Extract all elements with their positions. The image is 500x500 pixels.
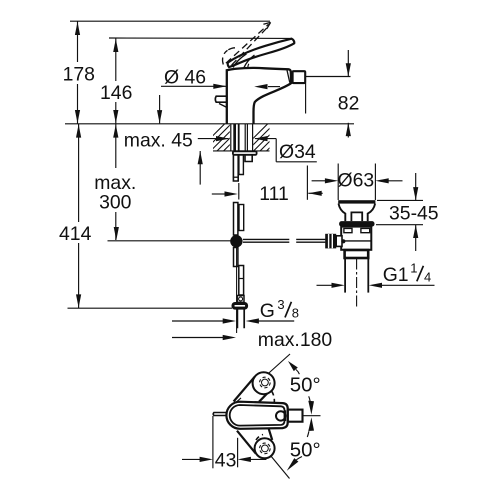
- tail pipe: [344, 258, 346, 293]
- supply pipe B: [239, 155, 244, 175]
- dim line 35-45: [415, 173, 417, 200]
- dim line max300: [115, 124, 117, 168]
- body inner: [230, 405, 285, 426]
- dim arrow max45 upper: [159, 95, 161, 123]
- svg-text:300: 300: [99, 192, 132, 214]
- svg-text:414: 414: [59, 223, 92, 245]
- top reference line (spout raised tip level): [70, 20, 270, 22]
- dashed handle tip arrow: [263, 22, 270, 28]
- svg-text:1: 1: [410, 261, 417, 276]
- max45 down to deck: [157, 110, 162, 123]
- dim line 414: [78, 124, 80, 222]
- bottom view: ext lines 43: [212, 416, 214, 468]
- mounting washer: [233, 151, 257, 155]
- upper angle arc stubs: [296, 370, 299, 375]
- block: [288, 410, 303, 422]
- G1 1/4 arrows: [332, 283, 345, 288]
- lower arm hole: [260, 443, 271, 454]
- spout end inner line: [287, 70, 290, 82]
- 35-45 down / up: [413, 187, 418, 200]
- lower arm boss: [255, 438, 275, 458]
- svg-text:max.: max.: [94, 172, 136, 194]
- dim line Ø46: [161, 85, 226, 87]
- stem knob: [351, 212, 362, 221]
- 146 up / down: [113, 39, 118, 52]
- lower 50deg arc arrows: [308, 417, 314, 431]
- deck top line: [65, 123, 354, 125]
- dim line G1 1/4: [317, 284, 335, 286]
- handle inner detail (nose): [233, 54, 247, 68]
- svg-text:8: 8: [292, 306, 299, 321]
- tee junction ball: [230, 235, 242, 247]
- ref line 82 top (from aerator): [305, 76, 350, 78]
- fraction slashes: [285, 266, 423, 318]
- peg left: [213, 413, 226, 416]
- dim arrow max45 lower: [199, 151, 201, 185]
- svg-text:G: G: [260, 300, 275, 322]
- Ø34 arrows at hole: [216, 136, 229, 141]
- cup taper: [339, 204, 376, 222]
- svg-text:max. 45: max. 45: [124, 129, 193, 151]
- handle (solid): [228, 39, 295, 67]
- knurled nut left: [325, 234, 336, 249]
- svg-text:Ø 46: Ø 46: [164, 66, 206, 88]
- top flange band: [338, 200, 375, 203]
- drip line under aerator: [305, 83, 307, 114]
- svg-text:111: 111: [259, 183, 288, 205]
- pop-up rod below tee: [234, 248, 238, 267]
- reference line 146 (handle top level): [109, 37, 291, 39]
- ref lines 35-45: [377, 199, 423, 201]
- 111 arrows: [225, 191, 238, 196]
- aerator circle: [276, 411, 285, 420]
- washer band: [339, 221, 374, 227]
- ref line bottom of 414: [68, 307, 233, 309]
- upper arm boss: [253, 372, 275, 394]
- Ø63 arrows: [325, 178, 338, 183]
- 178 up / down: [75, 22, 80, 35]
- max180 arrow: [223, 335, 236, 340]
- tail pipe below nut: [237, 309, 244, 328]
- supply pipe A: [233, 155, 238, 181]
- ext line 111 left: [238, 183, 240, 200]
- thin center rod: [236, 235, 238, 333]
- ball joint: [237, 296, 244, 303]
- svg-text:50°: 50°: [290, 375, 321, 397]
- deck bottom line: [213, 150, 270, 152]
- aerator block: [293, 71, 306, 83]
- svg-text:G1: G1: [383, 264, 409, 286]
- dim line Ø34 leader: [198, 138, 229, 140]
- left peg (pop-up knob): [215, 96, 227, 102]
- lower angle arc stubs: [307, 431, 309, 437]
- svg-text:Ø63: Ø63: [338, 170, 375, 192]
- arrowheads (solid): [75, 22, 418, 471]
- upper 50 deg diagonal: [268, 354, 290, 374]
- lower 50 deg diagonal: [271, 456, 290, 479]
- right stub: [245, 155, 252, 162]
- ext line 111 right: [306, 166, 308, 200]
- raised handle dashed: [223, 24, 269, 65]
- ref line max300 / popup rod line: [108, 240, 232, 242]
- upper arm hole: [260, 377, 271, 388]
- centerline dash-dot: [356, 259, 358, 308]
- ext lines Ø63: [337, 164, 339, 201]
- dim line 178: [77, 21, 79, 62]
- dim line 82: [347, 50, 349, 77]
- body outer: [226, 402, 287, 429]
- svg-text:50°: 50°: [290, 440, 321, 462]
- svg-text:3: 3: [277, 297, 284, 312]
- dim line G3/8: [172, 320, 226, 322]
- svg-text:43: 43: [215, 449, 237, 471]
- svg-text:146: 146: [100, 82, 132, 104]
- svg-text:4: 4: [424, 270, 431, 285]
- dim line 111: [212, 193, 226, 195]
- bottom view centerline: [303, 415, 321, 417]
- 414 up / down: [76, 124, 81, 137]
- G3/8 arrows: [223, 318, 236, 323]
- dim line Ø63: [312, 180, 327, 182]
- 82 down / up: [346, 63, 351, 76]
- svg-text:max.180: max.180: [258, 329, 333, 351]
- svg-text:178: 178: [63, 63, 95, 85]
- svg-text:82: 82: [338, 93, 360, 115]
- dim line max180: [172, 337, 226, 339]
- lower tube: [239, 266, 244, 296]
- upper 50deg arc arrows: [288, 361, 298, 371]
- max300 up / down: [113, 124, 118, 137]
- shank through deck: [230, 124, 232, 152]
- body outline with spout: [227, 68, 291, 124]
- collar: [345, 250, 369, 258]
- max45 up to deck bottom: [198, 151, 203, 164]
- horizontal pop-up rod: [243, 239, 325, 242]
- 43 arrows: [200, 457, 213, 462]
- svg-text:Ø34: Ø34: [279, 141, 316, 163]
- svg-text:35-45: 35-45: [389, 203, 439, 225]
- dim line 146: [115, 38, 117, 81]
- pop-up rod upper: [234, 203, 238, 236]
- Ø46 right-pointing / left-pointing: [213, 84, 226, 89]
- dim line 43: [182, 458, 203, 460]
- G3/8 nut: [233, 304, 247, 309]
- drain body: [341, 227, 371, 250]
